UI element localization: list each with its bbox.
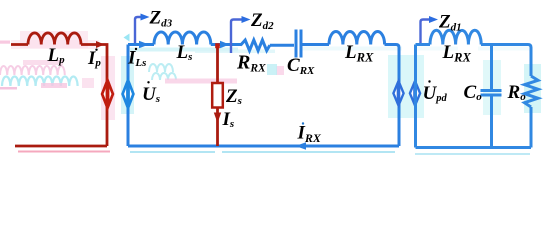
capacitor Co branch top — [490, 45, 493, 90]
dependent source diamond (blue, left of pair) — [393, 80, 403, 106]
inductor LRX (right) — [430, 30, 481, 44]
wire: middle loop blue left edge — [128, 30, 399, 147]
ghost cyan halo behind mid diamond pair — [388, 55, 424, 118]
inductor Ls — [154, 32, 211, 45]
top wire LRX to corner, right edge top — [481, 45, 531, 77]
svg-text:Ls: Ls — [176, 42, 193, 63]
svg-text:Zd1: Zd1 — [438, 12, 462, 34]
impedance Zs box — [212, 83, 223, 108]
arrow mid (before Zd2) — [220, 41, 230, 48]
arrow Ip — [96, 41, 105, 48]
svg-text:Is: Is — [222, 109, 235, 130]
ghost pink tick right of R_RX label — [276, 66, 284, 75]
ghost cyan halo under blue diamond — [121, 56, 134, 114]
wire top red right + right edge vertical — [81, 45, 107, 147]
svg-text:LRX: LRX — [344, 42, 374, 64]
svg-text:Co: Co — [464, 82, 483, 103]
measuring arrow Zd2 — [231, 20, 244, 54]
impedance Zs branch (red) — [216, 46, 219, 146]
dependent source diamond (blue, Us) — [123, 79, 134, 108]
wire: red primary loop — [11, 33, 107, 146]
resistor RRX zigzag — [241, 40, 270, 51]
ghost pink halo behind Lp — [20, 31, 88, 48]
arrow IRX on bottom wire (points left) — [296, 142, 307, 150]
measuring arrow Zd1 — [421, 20, 432, 44]
phasor dot Us — [147, 81, 149, 83]
dependent source diamond (red, jwMIs) — [102, 79, 113, 108]
ghost cyan streak under top wire — [128, 48, 238, 52]
left edge vertical — [414, 45, 417, 148]
ghost cyan halo behind Ro — [524, 64, 541, 113]
wire bottom red — [15, 145, 107, 148]
svg-text:CRX: CRX — [287, 55, 315, 77]
capacitor Co plates — [481, 91, 502, 96]
ghost pink halo under red diamond — [101, 56, 115, 120]
ghost cyan left arrowhead above wire — [124, 34, 130, 42]
ghost cyan patch right of R_RX label — [267, 64, 277, 75]
arrow Is — [214, 113, 221, 124]
ghost scallop row cyan (lower, left) — [2, 76, 78, 86]
top wire to LRX — [416, 43, 431, 46]
svg-text:Zs: Zs — [225, 86, 242, 107]
ghost pink streak left edge — [0, 41, 10, 44]
right edge bottom — [530, 107, 533, 148]
wire RRX to CRX — [270, 44, 294, 47]
ghost scallop row pink (upper, left) — [0, 66, 65, 75]
wire bottom middle — [128, 145, 399, 148]
junction dot Zs — [215, 43, 220, 48]
resistor Ro zigzag — [525, 76, 539, 107]
svg-text:Us: Us — [142, 84, 160, 105]
svg-text:IRX: IRX — [297, 123, 322, 145]
measuring arrow Zd3 — [135, 17, 143, 43]
svg-text:Zd2: Zd2 — [250, 10, 274, 32]
wire Ls to RRX — [211, 43, 241, 46]
svg-text:Ip: Ip — [87, 48, 101, 69]
inductor LRX (middle) — [329, 32, 385, 45]
wire top: edge to Ls — [128, 43, 154, 46]
phasor dot IRX — [302, 122, 304, 124]
ghost pink band above scallops — [23, 60, 63, 65]
svg-text:LRX: LRX — [442, 42, 472, 64]
dependent source diamond (blue, Upd) — [410, 80, 420, 106]
ghost bottom lines — [18, 151, 110, 153]
ghost cyan halo behind Co branch — [483, 60, 501, 115]
phasor dot ILs — [135, 48, 137, 50]
svg-text:RRX: RRX — [236, 51, 266, 74]
ghost pink small bands — [41, 83, 67, 88]
capacitor Co branch bottom — [490, 96, 493, 147]
arrow ILs on wire — [139, 41, 149, 48]
ghost scallop row cyan (mid) — [149, 64, 176, 80]
phasor dot Ip — [95, 49, 97, 51]
wire top red — [11, 43, 28, 46]
wire: right loop — [416, 30, 539, 147]
bottom wire right loop — [416, 146, 532, 149]
wire CRX to LRX — [302, 43, 329, 46]
svg-text:Zd3: Zd3 — [149, 8, 173, 30]
capacitor CRX plates — [296, 30, 301, 58]
inductor Lp — [28, 33, 81, 45]
ghost pink long band — [165, 79, 237, 84]
phasor dot Upd — [428, 80, 430, 82]
svg-text:Upd: Upd — [423, 83, 448, 104]
wire LRX to corner + right edge — [385, 45, 400, 147]
